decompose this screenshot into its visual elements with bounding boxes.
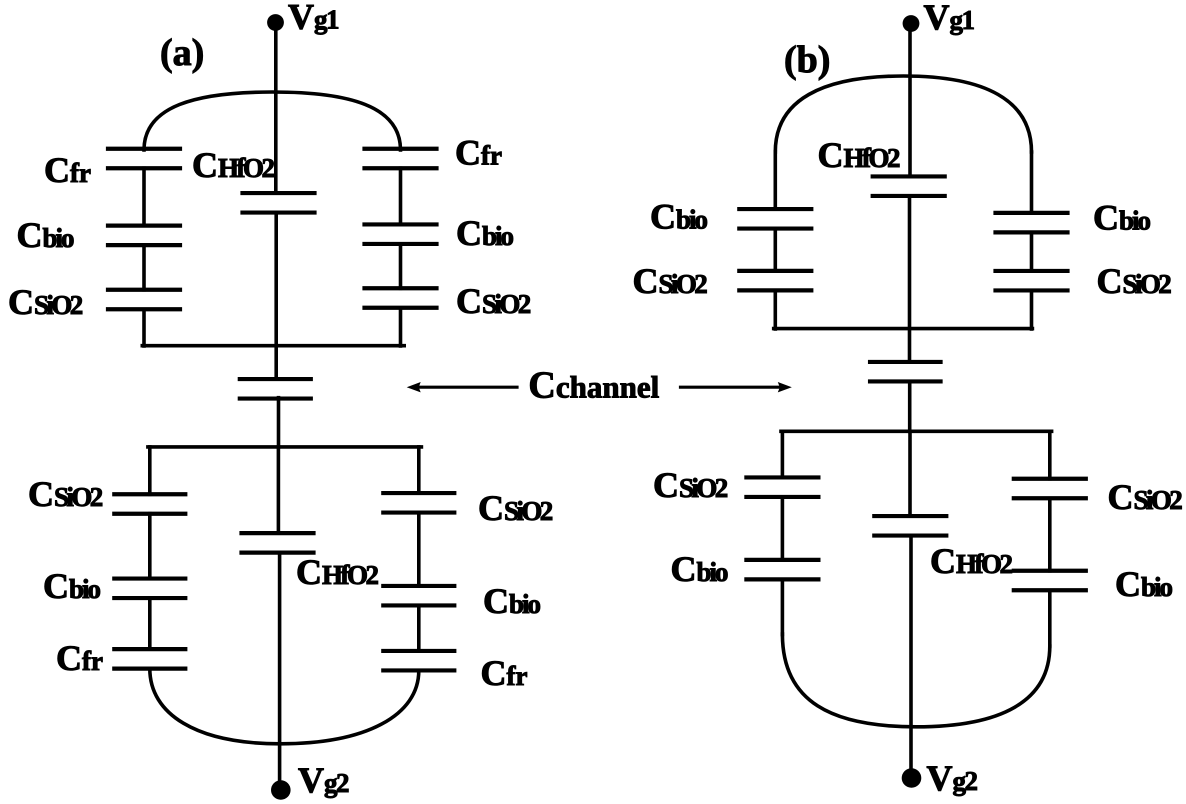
svg-text:Cchannel: Cchannel: [528, 365, 659, 407]
svg-text:Vg1: Vg1: [288, 0, 339, 37]
svg-text:Vg1: Vg1: [924, 0, 975, 37]
svg-text:(b): (b): [784, 39, 830, 81]
svg-text:(a): (a): [160, 32, 204, 74]
